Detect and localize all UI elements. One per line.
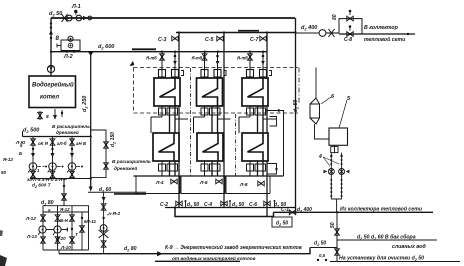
svg-text:Л-6: Л-6 [199,180,208,186]
valve on x337 lower [335,249,340,255]
svg-text:С-2: С-2 [160,202,168,208]
inter-exchanger pipes col2 [194,106,231,133]
vent tick b [229,202,231,208]
junction dots manifold/risers [161,51,163,53]
inter-exchanger pipes col3 [239,106,276,133]
inter-exchanger pipes col1 [151,106,188,133]
svg-text:0,5: 0,5 [319,253,326,258]
box 5 [329,128,348,145]
wire: line B return header [176,32,295,34]
heat exchanger U3 [242,78,268,106]
bypass loop [339,19,362,34]
svg-text:оК Я: оК Я [38,141,49,146]
svg-text:4: 4 [318,154,322,160]
heat exchanger U1 [154,78,180,106]
svg-text:d2 600: d2 600 [98,44,114,51]
svg-text:d2 400: d2 400 [297,207,312,213]
riser 3 [266,33,268,217]
vertical x337 down [336,212,338,261]
bypass rect right of riser [91,130,106,178]
bottom arrow of riser [89,187,93,192]
svg-text:Л-2: Л-2 [63,54,73,60]
svg-text:Д-20: Д-20 [55,236,66,241]
svg-text:аЛ-б: аЛ-б [57,141,67,146]
svg-text:Я-тб: Я-тб [145,56,157,61]
vent tick a [185,202,187,208]
svg-text:В расширитель: В расширитель [52,124,90,129]
wire: right junction vertical [295,18,297,212]
dash-dot vertical right [298,68,300,105]
boiler box [29,76,76,108]
svg-text:d2 250: d2 250 [82,96,89,112]
svg-text:d2 150: d2 150 [110,132,116,147]
bottom main line left [59,248,310,254]
pipe to pump [296,32,320,34]
svg-text:϶а-Л-8 а-Н-б а-Н-Р: ϶а-Л-8 а-Н-б а-Н-Р [26,176,68,182]
svg-text:Л-12: Л-12 [25,216,36,221]
svg-text:Из коллектора тепловой сети: Из коллектора тепловой сети [340,206,423,213]
lower stubs col2 [201,161,220,176]
vessel 6 [310,98,320,124]
svg-text:Т: Т [75,232,78,237]
svg-text:50: 50 [1,170,7,175]
svg-text:На установку для очистки d2 50: На установку для очистки d2 50 [339,256,424,262]
pump branch 3 [67,137,76,179]
corner arrow blob [130,61,135,66]
pipe to ochistka junction [310,247,337,249]
dark overline artifact [132,48,156,50]
svg-text:Л-13: Л-13 [26,234,37,239]
drain manifold y176 [134,175,284,177]
svg-text:Б-Н: Б-Н [60,218,69,223]
svg-text:дренажей: дренажей [56,129,79,135]
svg-text:50: 50 [330,222,336,228]
svg-text:С-6: С-6 [249,202,257,208]
svg-text:В коллектор: В коллектор [364,25,398,31]
pipe discharge manifold [30,178,91,180]
svg-text:С-1: С-1 [281,207,289,213]
pump side arrows [38,166,45,168]
pipe suction manifold [23,136,91,138]
below box5 [334,145,336,152]
svg-text:d2 80: d2 80 [124,246,137,252]
svg-text:d2 50: d2 50 [276,221,288,227]
pump above boiler [47,65,54,72]
pipe line A top [51,17,295,19]
heat exchanger L1 [153,133,179,161]
svg-text:С-4: С-4 [204,202,212,208]
vent tick c [274,202,276,208]
heavy line y216.5 [175,208,274,217]
svg-text:d2 50: d2 50 [232,202,244,208]
internal branches [57,206,59,250]
pipe supply manifold y51.7 [51,51,267,53]
svg-text:6Л-11: 6Л-11 [84,219,96,224]
valve C-6 [264,201,270,206]
riser 1 [178,33,180,208]
X valve [329,29,335,37]
svg-text:80: 80 [332,14,338,20]
gauges on line A [67,15,73,21]
pipe riser x90.7 [90,52,92,188]
svg-text:сливных вод: сливных вод [392,244,426,250]
d50 box [272,217,292,227]
drain loop rect 3 [226,176,270,194]
valve on line A [62,14,68,22]
twin drain lines [323,153,349,213]
drain line y192.3 [88,191,146,193]
svg-text:d2 50: d2 50 [314,241,326,247]
svg-text:С-7: С-7 [250,37,259,43]
dot chains [330,159,342,197]
svg-text:тепловой сети: тепловой сети [364,36,406,43]
drain loop rect 1 [136,176,180,194]
frame to bottom line connector [58,250,60,254]
svg-text:Л-10: Л-10 [60,245,71,250]
svg-text:Я-тб: Я-тб [236,56,248,61]
svg-text:Л-4: Л-4 [155,180,164,186]
valve C-2 [176,201,182,206]
pump branch 2 [48,137,57,179]
svg-text:С-3: С-3 [158,37,166,43]
svg-text:Я-12: Я-12 [2,157,13,162]
svg-text:аН В: аН В [76,141,87,146]
svg-text:К-9 → Энергетический завод эне: К-9 → Энергетический завод энергетически… [165,244,302,251]
wire: boiler riser x51 [50,18,52,76]
frame [43,206,89,250]
col3 side loop pipe [267,111,284,177]
svg-text:d2 400: d2 400 [301,25,317,32]
junction triangle at x90.7 [88,52,94,56]
svg-text:Водогрейный: Водогрейный [32,82,74,89]
svg-text:Б: Б [19,151,22,156]
svg-text:В расширитель: В расширитель [112,159,151,165]
stem to vessel [315,68,317,99]
svg-text:d2 50: d2 50 [187,202,199,208]
svg-text:дренажей: дренажей [114,165,137,172]
dash-dot drain verticals [190,68,192,176]
svg-text:8: 8 [56,35,60,42]
pumps [39,226,46,233]
svg-text:8: 8 [46,114,49,120]
svg-text:Я-12: Я-12 [59,207,70,212]
svg-text:Л-8: Л-8 [239,182,248,188]
lower stubs to drain manifold col1 [159,161,178,176]
bottom line na ustanovku [330,261,460,263]
heat exchanger U2 [197,78,223,106]
line to bak sbora y240 [337,239,437,241]
big control valve branch [99,192,121,253]
C-2 C-4 C-6 header y207.5 [165,207,296,209]
svg-text:котел: котел [40,95,59,101]
svg-text:Я-тб: Я-тб [191,56,203,61]
valve circles with arrows [323,169,334,175]
main line out [339,33,415,35]
drain loop rect 2 [181,176,225,194]
line iz kollektora y212.3 [274,211,434,213]
riser 2 [223,33,225,208]
svg-text:С-8: С-8 [344,37,352,43]
valves in group2 [41,215,46,221]
heat exchanger L3 [242,133,268,161]
svg-text:d2 50: d2 50 [293,100,299,112]
valve C-4 [221,201,227,206]
vessel outlet to box5 [315,124,330,139]
heat exchanger L2 [197,133,223,161]
dashed cell boundary [134,67,299,69]
svg-text:,а-Я-2: ,а-Я-2 [106,211,120,216]
svg-text:Л-1: Л-1 [71,4,81,10]
svg-text:С-5: С-5 [205,37,213,43]
lower stubs col3 [247,161,266,176]
pump branch 1 [28,137,37,179]
scan smudge bottom left corner [0,255,7,266]
arrows on line A [83,16,87,20]
svg-text:d2 500: d2 500 [23,128,39,135]
svg-text:d2 50: d2 50 [49,11,62,18]
pump box L-2 [61,40,80,51]
feed from discharge down [63,179,65,206]
svg-text:d2 50 d2 60 В бак сбора: d2 50 d2 60 В бак сбора [357,234,416,241]
